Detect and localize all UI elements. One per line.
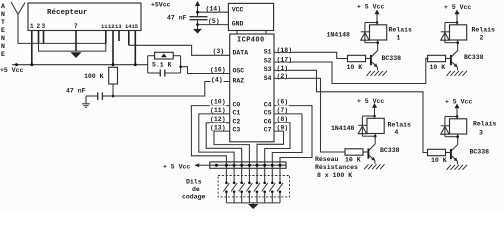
svg-text:5.1 K: 5.1 K	[152, 62, 172, 69]
svg-text:10 K: 10 K	[431, 157, 447, 164]
svg-text:(5): (5)	[208, 18, 220, 25]
svg-text:1N4148: 1N4148	[331, 125, 355, 132]
svg-text:Relais: Relais	[473, 121, 497, 128]
svg-text:+5 Vcc: +5 Vcc	[0, 67, 24, 74]
receiver pin 13 stub	[118, 31, 120, 42]
svg-text:2: 2	[480, 35, 484, 42]
DIP switch box dashed	[218, 176, 289, 197]
pin label (1)	[276, 64, 288, 70]
stubs power box to ICP400	[236, 31, 238, 35]
receiver pin 14 stub	[128, 31, 130, 46]
svg-text:(2): (2)	[277, 73, 289, 80]
+5 Vcc rail	[12, 64, 148, 66]
resistor network RN1 box	[210, 162, 286, 168]
network / switch columns	[223, 162, 283, 203]
column 6	[262, 162, 268, 203]
svg-text:S3: S3	[264, 66, 272, 73]
svg-text:C5: C5	[264, 110, 272, 117]
wire ground loop pins 2/7/11	[39, 43, 106, 51]
svg-text:(18): (18)	[277, 47, 293, 54]
switch common wire	[226, 202, 280, 204]
svg-text:(7): (7)	[277, 107, 289, 114]
resistor R 5.1K	[155, 52, 174, 59]
svg-text:Réseau: Réseau	[315, 156, 339, 163]
svg-text:ICP400: ICP400	[237, 37, 265, 45]
svg-text:100 K: 100 K	[84, 73, 104, 80]
wire S4 to relay 4	[274, 78, 345, 152]
svg-text:4: 4	[395, 129, 399, 136]
svg-text:(12): (12)	[210, 116, 226, 123]
pin names right	[264, 49, 272, 134]
svg-text:(9): (9)	[277, 124, 289, 131]
column 2	[231, 162, 237, 203]
svg-text:10 K: 10 K	[345, 156, 361, 163]
svg-text:(14): (14)	[206, 6, 222, 13]
wire C1 to network column 2	[199, 114, 234, 162]
svg-text:(6): (6)	[277, 99, 289, 106]
svg-text:+ 5 Vcc: + 5 Vcc	[357, 3, 384, 10]
svg-text:3: 3	[479, 130, 483, 137]
receiver pin numbers	[30, 23, 78, 30]
pin label (16)	[209, 65, 227, 72]
antenna	[11, 2, 25, 44]
receiver pin 11 stub	[105, 31, 107, 44]
svg-text:BC338: BC338	[380, 147, 400, 154]
IC U2 ICP400 box	[230, 34, 274, 142]
receiver pin 7 stub	[75, 31, 77, 52]
svg-text:47 nF: 47 nF	[66, 88, 86, 95]
wire C2 to network column 3	[206, 123, 242, 162]
pin label (7)	[276, 105, 289, 112]
node rail dots	[15, 63, 18, 66]
svg-text:C3: C3	[233, 127, 241, 134]
relay 2 block	[428, 10, 468, 76]
column 3	[239, 162, 245, 203]
svg-text:1N4148: 1N4148	[327, 31, 351, 38]
svg-text:de: de	[192, 186, 200, 193]
svg-text:12: 12	[108, 23, 115, 30]
relay 1 block	[348, 10, 388, 76]
svg-text:C4: C4	[264, 101, 272, 108]
svg-text:T: T	[1, 19, 5, 26]
svg-text:N: N	[1, 11, 5, 18]
svg-text:E: E	[1, 27, 5, 34]
svg-text:Récepteur: Récepteur	[47, 9, 88, 17]
wire C5 to network column 7	[272, 114, 302, 162]
capacitor C 47nF input	[86, 92, 113, 100]
svg-text:(3): (3)	[213, 48, 225, 55]
relay 4 block	[345, 103, 385, 169]
svg-text:C2: C2	[233, 118, 241, 125]
svg-text:S4: S4	[264, 75, 272, 82]
svg-text:S2: S2	[264, 57, 272, 64]
svg-text:(16): (16)	[210, 67, 226, 74]
svg-text:2: 2	[37, 23, 41, 30]
wire C6 to network column 6	[265, 123, 290, 162]
svg-text:(13): (13)	[210, 124, 226, 131]
wire S1 to relay 1	[274, 52, 348, 58]
svg-text:+ 5 Vcc: + 5 Vcc	[357, 98, 384, 105]
svg-text:(17): (17)	[277, 57, 293, 64]
ground arrow pin 7	[71, 52, 82, 58]
column 7	[269, 162, 275, 203]
svg-text:15: 15	[132, 23, 139, 30]
wire S2 to relay 2	[274, 59, 429, 84]
svg-text:+ 5 Vcc: + 5 Vcc	[445, 98, 472, 105]
svg-text:Relais: Relais	[389, 26, 413, 33]
svg-text:VCC: VCC	[232, 7, 244, 14]
svg-text:10 K: 10 K	[430, 64, 446, 71]
svg-text:3: 3	[42, 23, 46, 30]
wire 100K bottom node	[112, 84, 114, 96]
pin label (8)	[276, 115, 289, 122]
svg-text:13: 13	[115, 23, 122, 30]
svg-text:Relais: Relais	[472, 26, 496, 33]
wire antenna to receiver pin 1	[18, 42, 106, 44]
wire S3 to relay 3	[274, 70, 428, 152]
svg-text:C0: C0	[233, 101, 241, 108]
ground switches	[252, 203, 254, 204]
pin label (18)	[276, 46, 292, 52]
svg-text:N: N	[1, 43, 5, 50]
svg-text:+ 5 Vcc: + 5 Vcc	[444, 4, 471, 11]
resistor R 100K	[109, 67, 118, 84]
antenna label ANTENNE	[1, 3, 5, 58]
column 8	[277, 162, 283, 203]
svg-text:BC338: BC338	[382, 55, 402, 62]
pin names left	[233, 50, 249, 134]
node right vertical	[180, 56, 182, 73]
svg-text:E: E	[1, 51, 5, 58]
svg-text:A: A	[1, 3, 5, 10]
network common bus	[210, 164, 286, 166]
receiver pin 2 stub	[38, 31, 40, 44]
receiver pin 3 stub	[43, 31, 45, 44]
column 1	[223, 162, 229, 203]
receiver pin 1 stub down to +5V rail	[31, 31, 33, 65]
svg-text:N: N	[1, 35, 5, 42]
receiver pin 15 stub to rail	[134, 31, 136, 65]
ground 47nF	[82, 96, 90, 107]
wire OSC	[181, 67, 230, 74]
receiver pin 12 stub to rail	[112, 31, 114, 65]
svg-text:GND: GND	[232, 21, 244, 28]
pin label (2)	[276, 72, 288, 78]
wire C3 to network column 4	[214, 131, 249, 162]
power box VCC/GND	[228, 3, 273, 30]
svg-text:8 x 100 K: 8 x 100 K	[317, 172, 352, 179]
wire C4 to network column 8	[274, 106, 312, 162]
svg-text:Résistances: Résistances	[315, 164, 358, 171]
svg-text:S1: S1	[264, 49, 272, 56]
svg-text:OSC: OSC	[233, 68, 245, 75]
svg-text:10 K: 10 K	[347, 64, 363, 71]
column 4	[246, 162, 252, 203]
svg-text:+5Vcc: +5Vcc	[151, 2, 171, 9]
svg-text:BC338: BC338	[464, 54, 484, 61]
svg-text:C6: C6	[264, 118, 272, 125]
capacitor C 47nF decoupling	[190, 12, 208, 24]
wire RAZ	[113, 82, 230, 97]
pin label (6)	[276, 97, 289, 104]
pin label (3)	[212, 47, 226, 53]
relay 3 block	[428, 104, 468, 170]
svg-text:(10): (10)	[210, 99, 226, 106]
wire pin 14 to DATA	[129, 45, 230, 55]
pin label (11)	[210, 105, 227, 112]
svg-text:+ 5 Vcc: + 5 Vcc	[163, 163, 190, 170]
svg-text:DATA: DATA	[233, 50, 249, 57]
svg-text:codage: codage	[182, 194, 206, 201]
svg-text:47 nF: 47 nF	[167, 14, 187, 21]
svg-text:(4): (4)	[211, 76, 223, 83]
svg-text:Relais: Relais	[388, 122, 412, 129]
svg-text:RAZ: RAZ	[233, 77, 245, 84]
pin label (4)	[210, 75, 224, 81]
svg-text:(1): (1)	[277, 65, 289, 72]
wire GND pin 5	[198, 24, 229, 26]
pin label (10)	[210, 97, 227, 104]
capacitor osc	[148, 70, 181, 77]
svg-text:C7: C7	[264, 127, 272, 134]
svg-text:1: 1	[30, 23, 34, 30]
arrow feed network	[196, 164, 210, 166]
pin label (12)	[210, 115, 227, 122]
svg-text:BC338: BC338	[470, 149, 490, 156]
receiver U1 box	[28, 3, 141, 31]
pin label (17)	[276, 56, 292, 62]
wire C0 to network column 1	[191, 106, 229, 162]
column 5	[254, 162, 260, 203]
svg-text:Dils: Dils	[186, 179, 202, 186]
svg-text:1: 1	[397, 35, 401, 42]
svg-text:(8): (8)	[277, 116, 289, 123]
wire VCC pin 14	[198, 11, 229, 13]
wire C7 to network column 5	[257, 131, 284, 162]
svg-text:7: 7	[74, 23, 78, 30]
svg-text:C1: C1	[233, 110, 241, 117]
ground arrow top	[197, 25, 199, 29]
svg-text:(11): (11)	[210, 107, 226, 114]
pin label (13)	[210, 123, 227, 130]
node left vertical	[147, 56, 149, 73]
pin label (9)	[276, 123, 289, 130]
